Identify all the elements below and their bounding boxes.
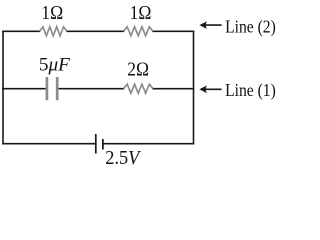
svg-text:Line (2): Line (2)	[225, 17, 276, 37]
svg-text:2.5V: 2.5V	[105, 147, 141, 168]
svg-text:5μF: 5μF	[39, 55, 70, 76]
svg-text:1Ω: 1Ω	[130, 2, 152, 24]
svg-text:2Ω: 2Ω	[127, 58, 149, 80]
svg-text:Line (1): Line (1)	[225, 80, 276, 100]
svg-text:1Ω: 1Ω	[41, 2, 63, 24]
